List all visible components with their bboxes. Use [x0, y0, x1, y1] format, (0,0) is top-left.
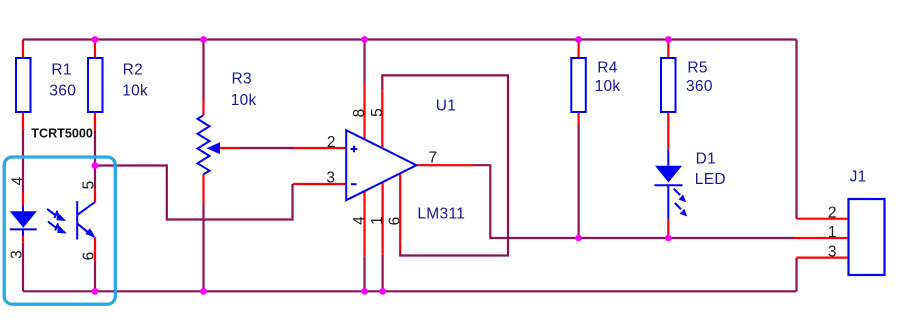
junction dot node A R2 TCRT pin5: [92, 162, 99, 169]
pin TCRT pin6 red stub: [94, 238, 96, 263]
resistor R5: [661, 58, 676, 112]
LED D1 emission arrow 2: [675, 203, 688, 217]
svg-text:TCRT5000: TCRT5000: [31, 126, 93, 140]
junction dot top bus R2: [92, 36, 99, 43]
LED D1 cathode stub blue: [667, 185, 669, 219]
wire R3 top dark segment: [202, 40, 204, 101]
svg-text:4: 4: [10, 176, 27, 185]
junction dot output net D1: [665, 235, 672, 242]
svg-text:5: 5: [369, 108, 386, 117]
pin D1 bottom red stub: [667, 220, 669, 238]
svg-text:3: 3: [326, 170, 335, 187]
pin R4 top red stub: [577, 42, 579, 59]
pin U1 pin5 red stub: [381, 90, 383, 148]
wire R3 wiper dark segment: [240, 147, 293, 149]
TCRT LED anode triangle: [10, 211, 37, 228]
pin U1 pin4 red stub: [363, 191, 365, 257]
TCRT phototransistor collector line: [78, 202, 96, 215]
pin TCRT pin5 red stub: [94, 190, 96, 203]
wire top power bus: [23, 38, 797, 40]
op-amp U1 minus symbol: [351, 183, 357, 185]
TCRT phototransistor emitter arrowhead: [85, 228, 95, 237]
pin R2 bottom red stub: [94, 112, 96, 130]
resistor R2: [88, 58, 103, 112]
TCRT LED anode blue stub: [22, 206, 24, 212]
svg-text:J1: J1: [850, 169, 867, 186]
junction dot output net R4: [575, 235, 582, 242]
junction dot ground bus U1 pin1: [379, 288, 386, 295]
pin U1 pin3 red stub: [293, 183, 346, 185]
pin TCRT pin3 red stub: [22, 236, 24, 243]
pin J1 pin3 red stub: [797, 257, 849, 259]
wire R3 bottom dark segment to ground bus: [202, 202, 204, 291]
wire left vertical R1 to LED (dark segment): [22, 40, 24, 292]
svg-text:3: 3: [828, 243, 837, 260]
svg-text:10k: 10k: [595, 78, 621, 95]
pin U1 pin6 red stub: [399, 173, 401, 251]
resistor R4: [571, 58, 586, 112]
potentiometer R3 zigzag: [198, 115, 210, 174]
TCRT LED cathode blue stub: [22, 229, 24, 235]
wire U1 pin8 dark segment from top bus: [363, 40, 365, 84]
wire R4 bottom dark segment: [577, 125, 579, 238]
op-amp U1 triangle: [346, 130, 416, 200]
wire U1 pin5 pin6 loop route: [382, 75, 508, 255]
svg-text:LM311: LM311: [417, 205, 465, 222]
svg-text:R5: R5: [687, 60, 707, 77]
pin U1 pin1 red stub: [382, 182, 384, 255]
pin R3 top red stub: [202, 100, 204, 115]
svg-text:5: 5: [81, 181, 98, 190]
connector J1 box: [849, 199, 885, 275]
svg-text:2: 2: [327, 134, 336, 151]
svg-text:R1: R1: [51, 62, 71, 79]
wire U1 pin4 dark segment to ground bus: [363, 257, 365, 292]
svg-text:6: 6: [387, 217, 404, 226]
pin J1 pin2 red stub: [797, 218, 849, 220]
svg-text:R3: R3: [232, 70, 252, 87]
pin R3 wiper red stub: [220, 147, 240, 149]
svg-text:360: 360: [49, 83, 76, 100]
LED D1 cathode bar: [655, 184, 683, 186]
wire top bus right corner down to J1 pin2: [795, 40, 797, 219]
wire R2 dark segment to node: [94, 130, 96, 189]
LED D1 emission arrow 1: [674, 189, 687, 203]
svg-text:2: 2: [828, 204, 837, 221]
LED D1 triangle: [655, 166, 682, 183]
wire bottom ground bus: [23, 290, 797, 292]
pin R3 bottom red stub: [202, 174, 204, 202]
junction dot top bus U1 pin8: [361, 36, 368, 43]
svg-text:10k: 10k: [231, 92, 257, 109]
svg-text:R4: R4: [597, 59, 617, 76]
potentiometer R3 wiper arrow: [207, 142, 221, 154]
wire node A horizontal to op-amp pin3 route: [95, 166, 293, 220]
pin R4 bottom red stub: [577, 112, 579, 125]
pin U1 pin8 red stub: [363, 83, 365, 139]
TCRT5000 optocoupler box: [4, 157, 115, 304]
wire J1 pin3 down to ground bus: [795, 258, 797, 292]
junction dot top bus R3: [200, 36, 207, 43]
svg-text:360: 360: [686, 78, 713, 95]
svg-text:6: 6: [81, 252, 98, 261]
pin U1 pin7 red stub: [416, 164, 474, 166]
junction dot top bus R5: [665, 36, 672, 43]
pin TCRT pin4 red stub: [22, 192, 24, 206]
junction dot top bus R4: [575, 36, 582, 43]
TCRT phototransistor base bar: [76, 201, 78, 239]
pin R5 bottom red stub: [667, 112, 669, 150]
svg-text:1: 1: [828, 224, 837, 241]
svg-text:1: 1: [369, 216, 386, 225]
svg-text:R2: R2: [123, 62, 143, 79]
op-amp U1 plus symbol: [351, 146, 358, 153]
TCRT photon arrow 2: [48, 222, 67, 234]
svg-text:LED: LED: [695, 171, 726, 188]
pin U1 pin2 red stub: [293, 147, 346, 149]
wire U1 pin1 dark segment to ground bus: [382, 255, 384, 292]
junction dot ground bus U1 pin4: [361, 288, 368, 295]
pin J1 pin1 red stub: [794, 237, 849, 239]
TCRT LED cathode bar: [10, 228, 37, 230]
svg-text:D1: D1: [696, 151, 716, 168]
pin R1 top red stub: [22, 42, 24, 59]
pin R5 top red stub: [667, 42, 669, 59]
resistor R1: [16, 58, 31, 112]
svg-text:7: 7: [429, 150, 438, 167]
svg-text:3: 3: [9, 250, 26, 259]
LED D1 anode stub blue: [667, 150, 669, 166]
junction dot ground bus TCRT pin6: [92, 288, 99, 295]
svg-text:10k: 10k: [122, 83, 148, 100]
svg-text:4: 4: [351, 216, 368, 225]
wire U1 pin7 output net to J1 pin1: [474, 165, 794, 238]
junction dot ground bus R3: [200, 288, 207, 295]
TCRT phototransistor emitter line: [78, 224, 95, 238]
pin R1 bottom red stub: [22, 112, 24, 130]
svg-text:8: 8: [351, 109, 368, 118]
TCRT photon arrow 1: [47, 209, 66, 221]
pin R2 top red stub: [94, 42, 96, 59]
svg-text:U1: U1: [436, 98, 456, 115]
wire TCRT pin6 dark segment to ground bus: [94, 262, 96, 291]
